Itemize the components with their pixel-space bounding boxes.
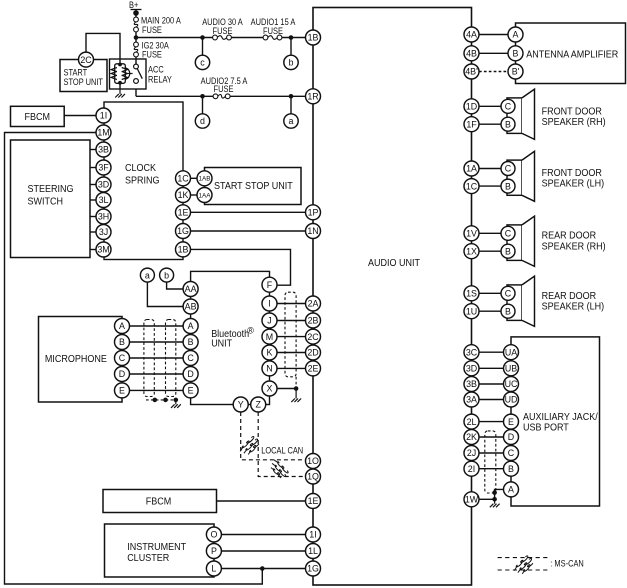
- svg-text:ACC: ACC: [148, 65, 164, 75]
- svg-text:B: B: [119, 337, 125, 347]
- svg-text:FBCM: FBCM: [146, 496, 172, 507]
- svg-text:UA: UA: [505, 347, 517, 357]
- svg-text:1K: 1K: [178, 190, 189, 200]
- svg-text:4A: 4A: [466, 30, 477, 40]
- svg-text:SPEAKER (LH): SPEAKER (LH): [542, 179, 605, 190]
- svg-text:FRONT DOOR: FRONT DOOR: [542, 168, 603, 179]
- svg-text:MICROPHONE: MICROPHONE: [45, 354, 107, 365]
- svg-text:FBCM: FBCM: [25, 112, 51, 123]
- svg-text:FUSE: FUSE: [214, 84, 234, 94]
- svg-text:O: O: [210, 530, 217, 540]
- svg-text:2A: 2A: [308, 299, 319, 309]
- svg-text:1S: 1S: [466, 288, 477, 298]
- svg-text:3B: 3B: [98, 145, 109, 155]
- svg-text:1AB: 1AB: [198, 176, 210, 183]
- svg-text:C: C: [505, 164, 512, 174]
- svg-text:SPEAKER (LH): SPEAKER (LH): [542, 302, 605, 313]
- svg-text:A: A: [119, 321, 125, 331]
- svg-text:FUSE: FUSE: [263, 26, 283, 36]
- svg-text:4B: 4B: [466, 48, 477, 58]
- svg-text:RELAY: RELAY: [148, 75, 172, 85]
- svg-text:1B: 1B: [308, 33, 319, 43]
- svg-text:2D: 2D: [307, 348, 318, 358]
- svg-text:1G: 1G: [177, 226, 189, 236]
- svg-text:1G: 1G: [307, 564, 319, 574]
- svg-text:2C: 2C: [80, 55, 92, 65]
- svg-text:1O: 1O: [307, 456, 319, 466]
- svg-text:UC: UC: [505, 379, 518, 389]
- svg-text:1U: 1U: [466, 306, 477, 316]
- svg-text:AA: AA: [185, 284, 197, 294]
- svg-text:P: P: [211, 546, 217, 556]
- svg-text:L: L: [211, 564, 216, 574]
- svg-text:2K: 2K: [466, 432, 477, 442]
- svg-text:1M: 1M: [97, 128, 109, 138]
- svg-text:1X: 1X: [466, 246, 477, 256]
- svg-text:Z: Z: [255, 400, 261, 410]
- svg-text:2L: 2L: [467, 417, 477, 427]
- svg-text:E: E: [188, 386, 194, 396]
- svg-text:4B': 4B': [465, 67, 478, 77]
- svg-text:B: B: [505, 119, 511, 129]
- svg-text:C: C: [505, 101, 512, 111]
- svg-text:1E: 1E: [178, 207, 189, 217]
- svg-text:3F: 3F: [98, 163, 109, 173]
- svg-text:LOCAL CAN: LOCAL CAN: [261, 445, 303, 455]
- svg-text:3A: 3A: [466, 395, 477, 405]
- svg-text:B: B: [513, 48, 519, 58]
- svg-text:A: A: [188, 321, 194, 331]
- svg-text:FRONT DOOR: FRONT DOOR: [542, 106, 603, 117]
- svg-text:2B: 2B: [308, 316, 319, 326]
- svg-text:SPEAKER (RH): SPEAKER (RH): [542, 242, 606, 253]
- svg-text:3D: 3D: [98, 180, 109, 190]
- svg-text:AUXILIARY JACK/: AUXILIARY JACK/: [523, 412, 598, 423]
- svg-text:A: A: [513, 30, 519, 40]
- svg-text:AUDIO UNIT: AUDIO UNIT: [368, 258, 421, 269]
- svg-text:1W: 1W: [465, 494, 479, 504]
- svg-text:1F: 1F: [466, 119, 477, 129]
- svg-text:D: D: [508, 432, 514, 442]
- svg-text:B+: B+: [129, 0, 138, 10]
- svg-text:D: D: [187, 369, 193, 379]
- svg-text:3M: 3M: [97, 245, 109, 255]
- svg-text:UD: UD: [505, 395, 518, 405]
- svg-text:X: X: [267, 384, 273, 394]
- svg-text:C: C: [508, 448, 515, 458]
- svg-text:2J: 2J: [467, 448, 476, 458]
- svg-text:E: E: [119, 386, 125, 396]
- svg-text:STOP UNIT: STOP UNIT: [64, 77, 104, 87]
- svg-text:1R: 1R: [307, 91, 318, 101]
- svg-text:AB: AB: [185, 302, 197, 312]
- svg-text:START STOP UNIT: START STOP UNIT: [214, 181, 293, 192]
- svg-text:B: B: [188, 337, 194, 347]
- svg-text:UB: UB: [505, 363, 517, 373]
- svg-text:C: C: [187, 353, 194, 363]
- svg-text:2I: 2I: [468, 464, 475, 474]
- svg-text:FUSE: FUSE: [213, 26, 233, 36]
- svg-text:: MS-CAN: : MS-CAN: [550, 559, 584, 569]
- svg-text:E: E: [508, 417, 514, 427]
- svg-text:1I: 1I: [100, 111, 107, 121]
- svg-text:C: C: [505, 288, 512, 298]
- svg-text:B: B: [505, 246, 511, 256]
- svg-text:3B: 3B: [466, 379, 477, 389]
- svg-text:B': B': [512, 67, 520, 77]
- svg-text:1Q: 1Q: [307, 472, 319, 482]
- svg-text:1V: 1V: [466, 228, 477, 238]
- svg-text:FUSE: FUSE: [142, 50, 162, 60]
- svg-text:Y: Y: [238, 400, 244, 410]
- svg-text:INSTRUMENT: INSTRUMENT: [127, 542, 187, 553]
- svg-text:3C: 3C: [466, 347, 478, 357]
- svg-text:3J: 3J: [99, 227, 108, 237]
- svg-text:1B: 1B: [178, 245, 189, 255]
- svg-text:CLUSTER: CLUSTER: [127, 553, 169, 564]
- svg-text:M: M: [266, 332, 273, 342]
- svg-text:SPRING: SPRING: [125, 176, 160, 187]
- svg-text:F: F: [267, 280, 273, 290]
- svg-text:1C: 1C: [177, 173, 189, 183]
- svg-text:UNIT: UNIT: [211, 339, 233, 350]
- svg-text:d: d: [200, 116, 205, 126]
- svg-text:SWITCH: SWITCH: [28, 197, 64, 208]
- svg-text:K: K: [267, 348, 273, 358]
- svg-text:C: C: [505, 228, 512, 238]
- svg-text:MAIN 200 A: MAIN 200 A: [141, 16, 181, 26]
- svg-text:J: J: [267, 316, 271, 326]
- svg-text:1L: 1L: [308, 546, 318, 556]
- svg-text:®: ®: [247, 326, 254, 336]
- svg-text:B: B: [505, 181, 511, 191]
- svg-text:USB PORT: USB PORT: [523, 423, 569, 434]
- svg-text:1N: 1N: [307, 226, 318, 236]
- svg-text:REAR DOOR: REAR DOOR: [542, 291, 597, 302]
- svg-text:b: b: [289, 58, 294, 68]
- svg-text:STEERING: STEERING: [28, 184, 74, 195]
- svg-text:3L: 3L: [99, 195, 109, 205]
- svg-text:B: B: [508, 464, 514, 474]
- svg-text:1E: 1E: [308, 496, 319, 506]
- svg-text:a: a: [145, 270, 150, 280]
- svg-text:C: C: [119, 353, 126, 363]
- svg-text:2E: 2E: [308, 364, 319, 374]
- svg-text:c: c: [200, 58, 205, 68]
- svg-text:1C: 1C: [466, 181, 478, 191]
- svg-text:SPEAKER (RH): SPEAKER (RH): [542, 117, 606, 128]
- svg-text:1AA: 1AA: [198, 192, 211, 199]
- svg-text:B: B: [505, 306, 511, 316]
- svg-text:1A: 1A: [466, 164, 477, 174]
- svg-text:ANTENNA AMPLIFIER: ANTENNA AMPLIFIER: [526, 49, 618, 60]
- svg-text:1I: 1I: [309, 530, 316, 540]
- svg-text:D: D: [119, 369, 125, 379]
- svg-text:I: I: [268, 299, 270, 309]
- svg-text:FUSE: FUSE: [142, 25, 162, 35]
- svg-text:1D: 1D: [466, 101, 477, 111]
- svg-text:a: a: [289, 116, 294, 126]
- svg-text:3D: 3D: [466, 363, 477, 373]
- svg-text:A: A: [508, 485, 514, 495]
- svg-text:3H: 3H: [98, 212, 109, 222]
- svg-text:2C: 2C: [307, 332, 319, 342]
- svg-text:b: b: [164, 270, 169, 280]
- svg-text:N: N: [266, 364, 272, 374]
- svg-text:CLOCK: CLOCK: [125, 163, 156, 174]
- svg-text:1P: 1P: [308, 207, 319, 217]
- svg-text:REAR DOOR: REAR DOOR: [542, 231, 597, 242]
